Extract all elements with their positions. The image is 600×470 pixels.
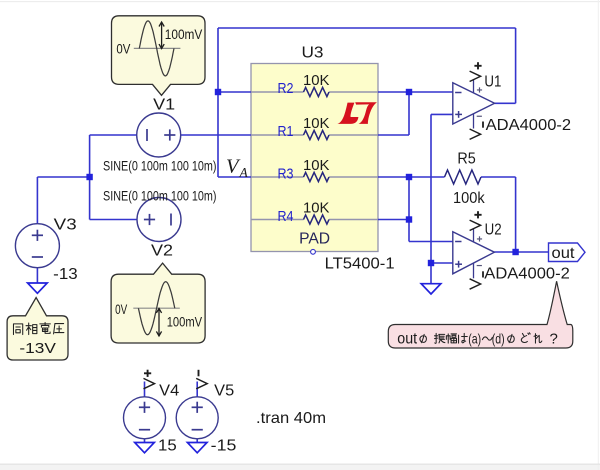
svg-text:10K: 10K xyxy=(303,157,330,174)
svg-text:R2: R2 xyxy=(278,80,294,97)
svg-text:100mV: 100mV xyxy=(167,315,202,330)
svg-text:R1: R1 xyxy=(278,123,294,140)
svg-text:0V: 0V xyxy=(115,302,127,317)
svg-text:V5: V5 xyxy=(214,383,234,400)
svg-text:(d): (d) xyxy=(492,330,505,346)
svg-text:10K: 10K xyxy=(303,115,330,132)
svg-text:100mV: 100mV xyxy=(165,27,203,42)
svg-text:U1: U1 xyxy=(484,74,501,91)
svg-text:PAD: PAD xyxy=(299,231,330,248)
svg-text:R5: R5 xyxy=(457,151,475,168)
svg-text:0V: 0V xyxy=(116,41,130,56)
svg-text:U2: U2 xyxy=(485,222,502,239)
svg-text:V2: V2 xyxy=(151,243,173,260)
svg-text:R3: R3 xyxy=(278,166,294,183)
svg-text:(a): (a) xyxy=(468,330,481,346)
svg-text:SINE(0 100m 100 10m): SINE(0 100m 100 10m) xyxy=(103,157,217,173)
svg-text:.tran 40m: .tran 40m xyxy=(256,410,326,427)
svg-text:-15: -15 xyxy=(211,438,237,455)
svg-text:A: A xyxy=(239,165,249,180)
svg-text:SINE(0 100m 100 10m): SINE(0 100m 100 10m) xyxy=(103,187,217,203)
svg-text:?: ? xyxy=(550,331,558,348)
svg-text:V3: V3 xyxy=(54,217,77,234)
svg-text:U3: U3 xyxy=(302,44,324,61)
svg-text:ADA4000-2: ADA4000-2 xyxy=(484,266,570,283)
svg-text:ADA4000-2: ADA4000-2 xyxy=(486,117,572,134)
svg-text:LT5400-1: LT5400-1 xyxy=(325,255,395,272)
svg-text:R4: R4 xyxy=(278,208,294,225)
svg-text:10K: 10K xyxy=(303,200,330,217)
svg-text:out: out xyxy=(552,245,576,262)
svg-text:V1: V1 xyxy=(153,97,175,114)
svg-text:-13: -13 xyxy=(53,266,78,283)
svg-text:100k: 100k xyxy=(453,190,486,207)
svg-text:V4: V4 xyxy=(159,383,179,400)
svg-text:10K: 10K xyxy=(303,72,330,89)
svg-text:15: 15 xyxy=(158,438,177,455)
svg-text:out: out xyxy=(397,330,417,347)
svg-text:-13V: -13V xyxy=(19,340,56,357)
